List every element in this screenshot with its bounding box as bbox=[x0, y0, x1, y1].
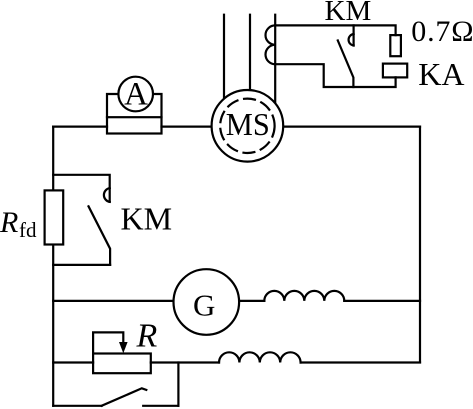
rheostat R wiper arrowhead bbox=[119, 342, 128, 353]
shunt resistor under ammeter bbox=[107, 117, 162, 133]
wire: row4 bottom right segment bbox=[143, 405, 178, 407]
wire: row2 (generator) left segment bbox=[53, 300, 174, 302]
relay coil KA bbox=[383, 64, 407, 78]
phase line L3 bbox=[274, 15, 276, 108]
wire: row1 shunt to motor bbox=[162, 125, 214, 127]
contactor contact KM (top): fixed contact stub bbox=[353, 25, 355, 45]
contactor contact KM (left): fixed contact hook bbox=[104, 188, 110, 202]
resistor 0.7ohm bbox=[390, 35, 401, 56]
wire: Rfd parallel branch top bbox=[53, 175, 109, 202]
wire: row3 rheostat to inductor2 bbox=[151, 361, 219, 363]
wire: row1 left segment to shunt bbox=[53, 125, 107, 127]
phase line L2 bbox=[249, 15, 251, 95]
motor MS outer circle bbox=[212, 90, 284, 162]
svg-text:KM: KM bbox=[121, 201, 173, 237]
wire: KM-branch top, from L3 to 0.7ohm branch bbox=[275, 25, 395, 35]
svg-text:0.7Ω: 0.7Ω bbox=[411, 15, 473, 48]
phase line L1 bbox=[223, 15, 225, 104]
svg-text:MS: MS bbox=[226, 106, 270, 142]
wire: row3 left segment to rheostat bbox=[53, 361, 93, 363]
wire: KM-branch bottom, from L3 coil bottom to 0.7ohm branch bbox=[275, 64, 395, 87]
switch S blade (bottom) bbox=[102, 388, 147, 406]
svg-text:R: R bbox=[136, 318, 158, 355]
svg-text:R: R bbox=[0, 206, 18, 239]
svg-text:A: A bbox=[124, 76, 148, 112]
wire: right bus vertical bbox=[419, 127, 421, 363]
svg-text:G: G bbox=[193, 288, 215, 323]
svg-text:fd: fd bbox=[19, 218, 37, 242]
wire: Rfd parallel branch bottom bbox=[53, 264, 110, 266]
svg-text:KM: KM bbox=[325, 0, 372, 27]
rheostat R body bbox=[93, 354, 151, 374]
wire: left bus vertical bbox=[52, 127, 54, 406]
svg-text:KA: KA bbox=[418, 56, 464, 92]
contactor contact KM (top): fixed contact hook bbox=[349, 34, 354, 46]
wire: row3 inductor2 to right bus bbox=[301, 361, 420, 363]
resistor Rfd body bbox=[45, 190, 64, 244]
contactor contact KM (top): moving blade bbox=[338, 41, 354, 88]
contactor contact KM (left): moving blade bbox=[89, 206, 111, 265]
wire: row4 drop from row3 junction bbox=[177, 363, 179, 406]
generator G circle bbox=[174, 269, 240, 335]
wire: row1 motor to right bus bbox=[282, 125, 420, 127]
wire: row4 bottom left segment bbox=[53, 405, 101, 407]
motor MS inner dashed circle bbox=[220, 99, 274, 153]
coil (reactor winding) on phase line L3 bbox=[266, 25, 276, 64]
inductor: exciter field winding (row3) bbox=[219, 352, 301, 362]
rheostat R wiper arm bbox=[93, 332, 123, 353]
wire: row2 generator to inductor bbox=[239, 300, 265, 302]
inductor: generator field winding (right of G) bbox=[264, 291, 344, 301]
ammeter branch box wires bbox=[107, 94, 119, 117]
wire: row2 inductor to right bus bbox=[344, 300, 420, 302]
ammeter A circle bbox=[118, 77, 153, 112]
